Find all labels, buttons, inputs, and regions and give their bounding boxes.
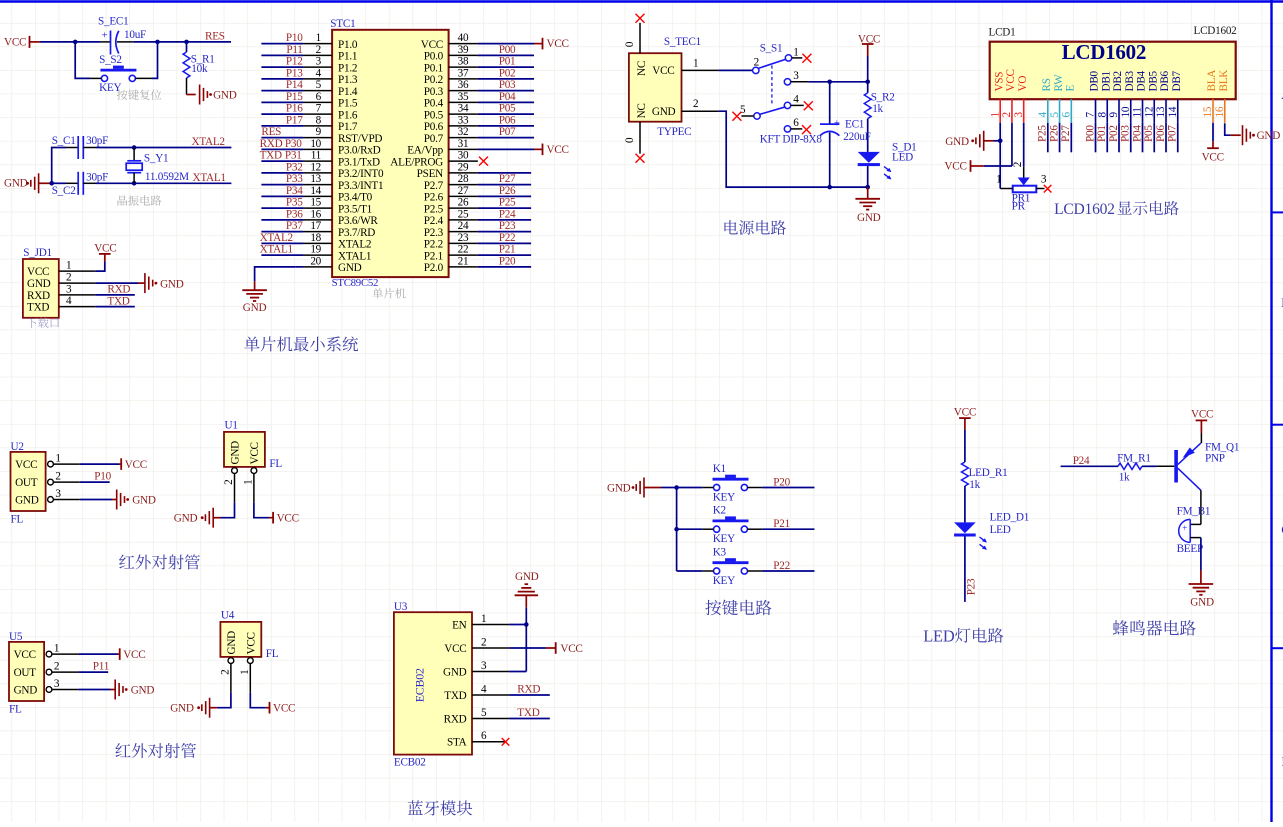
sheet frame top border: [0, 0, 1283, 3]
wire TXD (U3) + net label RXD: [509, 694, 550, 696]
svg-text:P02: P02: [1108, 125, 1120, 142]
svg-text:20: 20: [310, 255, 321, 267]
svg-text:S_EC1: S_EC1: [98, 15, 128, 27]
svg-text:P26: P26: [499, 185, 516, 197]
svg-text:GND: GND: [174, 513, 198, 525]
svg-text:TXD: TXD: [444, 690, 466, 702]
pin 2 (U5): [46, 669, 52, 675]
wire left (K1): [677, 487, 703, 489]
svg-text:P01: P01: [1096, 125, 1108, 142]
svg-text:P0.3: P0.3: [424, 86, 444, 98]
svg-text:EN: EN: [452, 619, 467, 631]
power ground GND (U2): [112, 499, 117, 501]
wire GND (STC1 pin 20): [296, 266, 303, 268]
svg-text:GND: GND: [132, 494, 156, 506]
svg-text:LED: LED: [892, 152, 913, 164]
svg-text:P05: P05: [1143, 125, 1155, 142]
svg-text:KEY: KEY: [713, 491, 735, 503]
svg-text:VCC: VCC: [1191, 409, 1213, 421]
svg-text:VCC: VCC: [123, 649, 145, 661]
svg-text:GND: GND: [515, 571, 539, 583]
svg-text:VCC: VCC: [277, 513, 299, 525]
svg-text:KFT DIP-8X8: KFT DIP-8X8: [760, 134, 823, 146]
svg-text:GND: GND: [14, 684, 38, 696]
svg-text:3: 3: [793, 70, 799, 82]
wire (STC1 left pin 16): [261, 219, 303, 221]
svg-text:P25: P25: [1037, 125, 1049, 142]
svg-text:1: 1: [239, 670, 251, 675]
svg-text:DB7: DB7: [1171, 70, 1183, 91]
svg-text:P02: P02: [499, 67, 516, 79]
power port VCC (U1): [269, 517, 273, 519]
svg-text:LED: LED: [990, 524, 1011, 536]
svg-text:16: 16: [310, 208, 321, 220]
svg-text:P1.3: P1.3: [338, 74, 358, 86]
svg-text:OUT: OUT: [15, 477, 38, 489]
svg-text:ECB02: ECB02: [394, 756, 426, 768]
wire OUT (U2): [80, 481, 110, 483]
svg-text:P03: P03: [499, 79, 516, 91]
svg-text:P2.0: P2.0: [424, 262, 444, 274]
svg-text:GND: GND: [131, 684, 155, 696]
svg-text:39: 39: [458, 44, 469, 56]
wire FM_R1 to base: [1142, 465, 1157, 467]
svg-text:VCC: VCC: [421, 39, 443, 51]
wire pin3 to GND (U2): [80, 499, 112, 501]
wire + net label P02: [1118, 123, 1120, 153]
wire S_EC1 to RES node: [134, 41, 231, 43]
svg-text:6: 6: [481, 730, 487, 742]
wire right (K3) + net label P22: [748, 570, 763, 572]
power ground GND (U5): [111, 689, 116, 691]
svg-text:1: 1: [243, 480, 255, 485]
svg-text:P21: P21: [499, 244, 516, 256]
svg-text:VCC: VCC: [125, 459, 147, 471]
wire GND rail: [719, 111, 868, 187]
svg-text:VCC: VCC: [547, 38, 569, 50]
wire pin1 to VCC (U5): [78, 653, 117, 655]
svg-text:PNP: PNP: [1205, 452, 1225, 464]
wire RXD (download port): [95, 294, 135, 296]
svg-text:BLK: BLK: [1218, 70, 1230, 92]
wire OUT (U5): [78, 671, 108, 673]
svg-text:4: 4: [316, 67, 322, 79]
svg-text:P16: P16: [286, 103, 303, 115]
wire P24 + net label P24: [1061, 465, 1118, 467]
power port VCC (U5): [118, 653, 120, 655]
svg-text:U1: U1: [225, 420, 238, 432]
svg-text:LCD1602: LCD1602: [1054, 201, 1115, 218]
svg-text:EC1: EC1: [845, 119, 864, 131]
wire right (K1) + net label P20: [748, 487, 763, 489]
svg-text:VCC: VCC: [560, 643, 582, 655]
svg-text:30: 30: [458, 150, 469, 162]
wire LED_R1 to LED_D1: [964, 486, 966, 522]
svg-text:P1.4: P1.4: [338, 86, 358, 98]
wire collector to buzzer: [1200, 490, 1202, 524]
title: IR sensor pair (upper): [119, 554, 200, 569]
svg-text:5: 5: [316, 79, 322, 91]
svg-text:K1: K1: [713, 463, 726, 475]
wire + net label P03: [1130, 123, 1132, 153]
svg-text:P26: P26: [1048, 125, 1060, 142]
svg-text:P34: P34: [286, 185, 303, 197]
wire (STC1 left pin 11): [261, 160, 303, 162]
svg-text:FL: FL: [269, 458, 282, 470]
svg-text:LCD1: LCD1: [989, 26, 1016, 38]
svg-text:1: 1: [54, 643, 59, 655]
wire VCC (U3): [509, 647, 545, 649]
wire XTAL2: [96, 147, 231, 149]
wire RXD (U3) + net label TXD: [509, 718, 550, 720]
svg-text:27: 27: [458, 185, 469, 197]
svg-text:P0.7: P0.7: [424, 133, 444, 145]
svg-text:DB6: DB6: [1159, 70, 1171, 91]
svg-text:13: 13: [310, 173, 321, 185]
svg-text:VCC: VCC: [1005, 69, 1017, 91]
title: IR sensor pair (lower): [115, 743, 196, 758]
svg-text:DB1: DB1: [1100, 71, 1112, 91]
svg-text:RES: RES: [205, 30, 225, 42]
svg-text:P37: P37: [286, 220, 303, 232]
wire (STC1 pin 39): [478, 54, 534, 56]
wire (STC1 pin 23): [478, 242, 531, 244]
svg-text:P10: P10: [286, 32, 303, 44]
svg-text:P14: P14: [286, 79, 303, 91]
svg-text:P05: P05: [499, 103, 516, 115]
svg-text:P3.0/RxD: P3.0/RxD: [338, 145, 381, 157]
svg-text:GND: GND: [1257, 130, 1281, 142]
wire (STC1 pin 29): [478, 172, 531, 174]
svg-text:DB3: DB3: [1124, 70, 1136, 91]
svg-text:P0.0: P0.0: [424, 51, 444, 63]
svg-text:P3.5/T1: P3.5/T1: [338, 203, 372, 215]
pin 3 (U5): [46, 687, 52, 693]
svg-text:5: 5: [481, 707, 487, 719]
wire (STC1 left pin 2): [261, 54, 303, 56]
svg-text:14: 14: [310, 185, 321, 197]
svg-text:11: 11: [311, 150, 321, 162]
wire (STC1 left pin 5): [261, 90, 303, 92]
wire + net label P05: [1153, 123, 1155, 153]
svg-text:1: 1: [793, 46, 798, 58]
pin 1 (U5): [46, 651, 52, 657]
svg-text:NC: NC: [636, 103, 648, 118]
svg-text:0: 0: [624, 137, 636, 143]
svg-text:4: 4: [481, 683, 487, 695]
svg-text:GND: GND: [230, 441, 242, 465]
wire (STC1 pin 32): [478, 137, 534, 139]
wire VCC to emitter: [1200, 433, 1202, 443]
svg-text:3: 3: [481, 660, 487, 672]
svg-text:OUT: OUT: [14, 667, 37, 679]
wire buzzer to GND: [1190, 537, 1201, 539]
svg-text:P01: P01: [499, 56, 516, 68]
wire (STC1 pin 35): [478, 101, 534, 103]
svg-text:PR: PR: [1012, 201, 1026, 213]
svg-text:9: 9: [316, 126, 322, 138]
power ground GND (download port): [138, 282, 144, 284]
title: buzzer circuit: [1113, 620, 1196, 636]
svg-text:2: 2: [220, 670, 232, 675]
svg-text:5: 5: [740, 104, 746, 116]
svg-text:DB2: DB2: [1112, 71, 1124, 91]
wire + net label P26: [1059, 123, 1061, 153]
svg-text:VCC: VCC: [15, 459, 37, 471]
svg-text:P04: P04: [499, 91, 516, 103]
wire pin3 to VCC rail: [808, 81, 867, 83]
svg-text:38: 38: [458, 56, 469, 68]
title: bluetooth module: [408, 800, 472, 815]
svg-text:7: 7: [316, 103, 322, 115]
svg-text:RS: RS: [1041, 78, 1053, 91]
wire (STC1 pin 38): [478, 66, 534, 68]
svg-text:2: 2: [481, 636, 486, 648]
svg-text:DB0: DB0: [1089, 70, 1101, 91]
svg-text:+: +: [102, 30, 108, 42]
svg-text:36: 36: [458, 79, 469, 91]
svg-text:DB4: DB4: [1136, 70, 1148, 91]
svg-text:VSS: VSS: [993, 72, 1005, 92]
no-connect X (STC1 pin 30): [479, 157, 488, 166]
svg-text:S_R2: S_R2: [871, 91, 895, 103]
svg-text:GND: GND: [857, 212, 881, 224]
svg-text:P07: P07: [499, 126, 516, 138]
svg-text:VCC: VCC: [245, 632, 257, 654]
svg-text:XTAL1: XTAL1: [338, 250, 371, 262]
svg-text:P3.4/T0: P3.4/T0: [338, 192, 373, 204]
wire (STC1 left pin 15): [261, 207, 303, 209]
svg-text:26: 26: [458, 197, 469, 209]
title: power circuit: [724, 220, 786, 235]
wire pin1 to VCC (U4): [250, 693, 265, 708]
wire (STC1 pin 28): [478, 184, 531, 186]
caption: MCU (gray): [372, 288, 405, 298]
pin 2 (U2): [48, 479, 54, 485]
svg-text:LCD1602: LCD1602: [1194, 25, 1237, 37]
svg-text:RST/VPD: RST/VPD: [338, 133, 382, 145]
power ground GND (reset circuit): [187, 94, 196, 96]
svg-text:1k: 1k: [969, 479, 980, 491]
wire (STC1 left pin 18): [261, 242, 303, 244]
svg-text:P10: P10: [94, 471, 111, 483]
wire EN (U3): [509, 624, 526, 626]
wire (STC1 pin 26): [478, 207, 531, 209]
wire (STC1 pin 21): [478, 266, 531, 268]
svg-text:XTAL2: XTAL2: [192, 136, 225, 148]
svg-text:33: 33: [458, 114, 469, 126]
power ground GND (U1): [214, 517, 221, 519]
wire VCC to S_EC1: [40, 41, 100, 43]
svg-text:P27: P27: [499, 173, 516, 185]
svg-text:30pF: 30pF: [86, 135, 108, 147]
svg-text:P17: P17: [286, 114, 303, 126]
svg-text:19: 19: [310, 244, 321, 256]
svg-text:P1.1: P1.1: [338, 51, 357, 63]
svg-text:8: 8: [316, 114, 322, 126]
power port VCC (U4): [266, 707, 270, 709]
power ground GND (backlight): [1230, 134, 1240, 136]
svg-text:TXD: TXD: [107, 296, 129, 308]
svg-text:22: 22: [458, 244, 469, 256]
wire left (K2): [677, 528, 703, 530]
svg-text:29: 29: [458, 161, 469, 173]
svg-text:10: 10: [310, 138, 321, 150]
svg-text:DB5: DB5: [1147, 70, 1159, 91]
wire (STC1 left pin 9): [261, 137, 303, 139]
svg-text:P23: P23: [499, 220, 516, 232]
svg-text:PSEN: PSEN: [417, 168, 444, 180]
sheet frame right border: [1270, 0, 1272, 822]
svg-text:VCC: VCC: [4, 37, 26, 49]
wire (STC1 pin 36): [478, 90, 534, 92]
svg-text:KEY: KEY: [713, 533, 735, 545]
wire VCC to LED_R1: [964, 430, 966, 462]
svg-text:15: 15: [310, 197, 321, 209]
svg-text:ALE/PROG: ALE/PROG: [390, 156, 443, 168]
svg-text:P2.6: P2.6: [424, 192, 444, 204]
svg-text:VCC: VCC: [94, 243, 116, 255]
earth ground (STC1 pin 20): [254, 281, 256, 290]
svg-text:P03: P03: [1120, 125, 1132, 142]
wire LCD VCC pin2: [1011, 123, 1013, 166]
svg-text:FL: FL: [266, 648, 279, 660]
wire GND pin3 (U3): [509, 671, 526, 673]
wire (STC1 pin 27): [478, 195, 531, 197]
svg-text:P1.5: P1.5: [338, 98, 358, 110]
wire pin2 to GND (U1): [221, 503, 235, 518]
svg-text:P1.0: P1.0: [338, 39, 358, 51]
svg-text:P23: P23: [966, 578, 978, 595]
svg-text:37: 37: [458, 67, 469, 79]
svg-text:P3.2/INT0: P3.2/INT0: [338, 168, 384, 180]
svg-text:GND: GND: [652, 106, 676, 118]
svg-text:P04: P04: [1131, 125, 1143, 142]
svg-text:EA/Vpp: EA/Vpp: [407, 145, 443, 157]
svg-text:BEEP: BEEP: [1177, 543, 1203, 555]
wire + net label P01: [1106, 123, 1108, 153]
svg-text:GND: GND: [226, 631, 238, 655]
svg-text:S_S2: S_S2: [99, 54, 122, 66]
wire + power port VCC (STC1 pin 31): [478, 148, 534, 150]
svg-text:TXD: TXD: [27, 302, 49, 314]
svg-text:P2.5: P2.5: [424, 203, 444, 215]
svg-text:P30: P30: [285, 138, 302, 150]
wire + net label P00: [1095, 123, 1097, 153]
svg-text:STC1: STC1: [330, 18, 355, 30]
caption: crystal circuit (gray): [118, 195, 162, 205]
svg-text:10k: 10k: [191, 63, 208, 75]
svg-text:GND: GND: [27, 278, 51, 290]
svg-text:VCC: VCC: [273, 703, 295, 715]
svg-text:S_JD1: S_JD1: [23, 247, 52, 259]
wire pin2 to GND: [95, 282, 138, 284]
svg-text:K2: K2: [713, 505, 726, 517]
wire (STC1 pin 34): [478, 113, 534, 115]
svg-text:0: 0: [624, 41, 636, 47]
svg-text:BLA: BLA: [1206, 70, 1218, 92]
svg-text:RXD: RXD: [444, 713, 467, 725]
svg-text:4: 4: [66, 295, 72, 307]
wire (STC1 left pin 7): [261, 113, 303, 115]
caption: download port (gray-blue): [27, 318, 59, 328]
svg-text:VCC: VCC: [249, 442, 261, 464]
svg-text:GND: GND: [170, 703, 194, 715]
svg-text:XTAL1: XTAL1: [193, 172, 226, 184]
svg-text:P1.7: P1.7: [338, 121, 358, 133]
wire (STC1 left pin 17): [261, 231, 303, 233]
svg-text:E: E: [1065, 85, 1077, 92]
svg-text:34: 34: [458, 103, 469, 115]
wire VSS to GND: [999, 123, 1001, 189]
svg-text:FM_B1: FM_B1: [1177, 505, 1211, 517]
svg-text:P3.1/TxD: P3.1/TxD: [338, 156, 380, 168]
svg-text:GND: GND: [945, 136, 969, 148]
svg-text:P2.1: P2.1: [424, 250, 443, 262]
svg-text:23: 23: [458, 232, 469, 244]
svg-text:P15: P15: [286, 91, 303, 103]
wire (STC1 left pin 10): [261, 148, 303, 150]
svg-text:3: 3: [54, 678, 60, 690]
svg-text:KEY: KEY: [713, 575, 735, 587]
svg-text:3: 3: [1041, 173, 1047, 185]
wire right (K2) + net label P21: [748, 528, 763, 530]
power port VCC (backlight): [1212, 141, 1214, 148]
svg-text:P33: P33: [286, 173, 303, 185]
svg-text:2: 2: [1012, 162, 1024, 167]
svg-text:32: 32: [458, 126, 469, 138]
svg-text:1k: 1k: [1119, 471, 1130, 483]
wire GND to keys: [661, 487, 677, 489]
svg-text:P0.5: P0.5: [424, 109, 444, 121]
wire TXD (download port): [95, 306, 135, 308]
svg-text:P06: P06: [1155, 125, 1167, 142]
svg-text:24: 24: [458, 220, 469, 232]
svg-text:2: 2: [754, 56, 759, 68]
svg-text:1: 1: [66, 260, 71, 272]
svg-text:P31: P31: [285, 150, 302, 162]
svg-text:2: 2: [55, 471, 60, 483]
svg-text:LCD1602: LCD1602: [1062, 40, 1147, 64]
svg-text:P00: P00: [1084, 125, 1096, 142]
title: MCU minimal system: [244, 336, 358, 351]
svg-text:GND: GND: [4, 178, 28, 190]
wire S_R2 to LED: [867, 119, 869, 152]
svg-text:P3.6/WR: P3.6/WR: [338, 215, 378, 227]
svg-text:RXD: RXD: [260, 138, 283, 150]
pin 1 (U4): [247, 658, 253, 664]
wire XTAL1: [96, 182, 231, 184]
svg-text:GND: GND: [607, 482, 631, 494]
svg-text:RES: RES: [261, 126, 281, 138]
svg-text:P2.3: P2.3: [424, 227, 444, 239]
svg-text:VCC: VCC: [27, 266, 49, 278]
svg-text:U4: U4: [221, 610, 235, 622]
svg-text:1: 1: [316, 32, 321, 44]
caption: key reset (gray): [117, 89, 161, 99]
wire (STC1 pin 25): [478, 219, 531, 221]
svg-text:2: 2: [693, 98, 698, 110]
svg-text:P06: P06: [499, 114, 516, 126]
wire GND to caps: [52, 148, 66, 184]
svg-text:P21: P21: [773, 518, 790, 530]
svg-text:6: 6: [793, 117, 799, 129]
wire LED cathode to GND rail: [867, 166, 869, 187]
wire pin1 to VCC: [95, 262, 105, 271]
svg-text:P32: P32: [286, 161, 303, 173]
svg-text:1: 1: [481, 613, 486, 625]
wire (STC1 left pin 14): [261, 195, 303, 197]
